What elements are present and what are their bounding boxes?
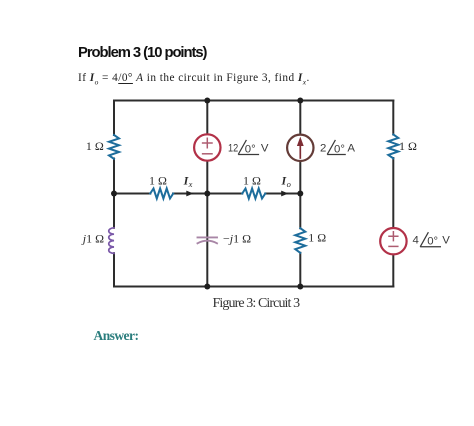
svg-text:1 Ω: 1 Ω <box>149 173 167 187</box>
svg-text:0°: 0° <box>334 143 345 155</box>
node mid-left junction <box>111 191 117 197</box>
svg-text:0°: 0° <box>245 143 256 155</box>
current source I1 arrow <box>297 137 304 158</box>
svg-text:j1 Ω: j1 Ω <box>81 232 104 246</box>
svg-text:−j1 Ω: −j1 Ω <box>223 232 251 246</box>
capacitor C1 -j1ohm top plate <box>198 236 218 238</box>
label V1 value 12/0 V <box>228 140 269 155</box>
svg-text:V: V <box>261 142 269 154</box>
svg-text:1 Ω: 1 Ω <box>308 231 326 245</box>
svg-text:1 Ω: 1 Ω <box>243 173 261 187</box>
wire below resistor R5 <box>299 253 301 287</box>
figure caption <box>213 296 300 311</box>
wire 12V branch to capacitor branch <box>206 160 208 287</box>
resistor R1 1ohm top-left <box>109 135 119 159</box>
wire right branch middle segment <box>392 158 394 229</box>
svg-text:12: 12 <box>228 142 238 154</box>
inductor L1 j1ohm <box>109 228 114 254</box>
wire top rail <box>114 100 393 102</box>
voltage source V2 4V circle <box>380 228 406 254</box>
voltage source V1 minus sign <box>203 153 212 155</box>
node top junction at 2A branch <box>297 98 303 104</box>
svg-text:2: 2 <box>320 142 326 154</box>
node mid-right junction <box>297 191 303 197</box>
voltage source V2 minus sign <box>389 245 398 247</box>
resistor R2 1ohm horizontal (Ix branch) <box>150 189 173 199</box>
svg-text:Ix: Ix <box>183 173 193 189</box>
svg-text:V: V <box>442 235 450 247</box>
wire middle rail segment between R2 and R3 <box>173 193 242 195</box>
capacitor C1 -j1ohm bottom curved plate <box>198 241 218 244</box>
label I1 value 2/0 A <box>320 140 355 155</box>
svg-text:Io: Io <box>281 173 291 189</box>
voltage source V1 plus sign <box>203 138 212 147</box>
answer label <box>94 329 139 344</box>
wire left branch upper segment <box>113 101 115 136</box>
wire 12V branch upper stub <box>206 101 208 137</box>
svg-text:1 Ω: 1 Ω <box>86 139 104 153</box>
voltage source V1 12V circle <box>194 134 220 160</box>
wire 2A branch upper stub <box>299 101 301 137</box>
wire right branch lower segment <box>392 254 394 287</box>
resistor R4 1ohm top-right <box>388 135 398 159</box>
node bottom junction at capacitor branch <box>204 284 210 290</box>
svg-text:0°: 0° <box>427 236 438 248</box>
resistor R3 1ohm horizontal (Io branch) <box>242 189 265 199</box>
node mid-center junction <box>204 191 210 197</box>
voltage source V2 plus sign <box>389 232 398 241</box>
current source I1 2A circle <box>287 135 313 161</box>
wire right branch upper segment <box>392 101 394 135</box>
wire bottom rail <box>114 286 393 288</box>
current arrow Io on middle rail <box>281 191 288 197</box>
wire middle rail left segment <box>114 193 150 195</box>
wire middle rail right segment <box>265 193 300 195</box>
node top junction at 12V branch <box>204 98 210 104</box>
svg-text:1 Ω: 1 Ω <box>399 139 417 153</box>
problem statement <box>78 72 310 86</box>
label V2 value 4/0 V <box>413 232 451 247</box>
wire left branch lower segment <box>113 253 115 286</box>
svg-text:4: 4 <box>413 235 419 247</box>
current arrow Ix on middle rail <box>186 191 193 197</box>
svg-text:A: A <box>347 142 355 154</box>
title <box>78 45 206 63</box>
wire left branch middle segment <box>113 159 115 228</box>
node bottom junction at R5 branch <box>297 284 303 290</box>
resistor R5 1ohm mid-bottom vertical <box>295 228 305 253</box>
wire 2A branch lower segment <box>299 160 301 229</box>
